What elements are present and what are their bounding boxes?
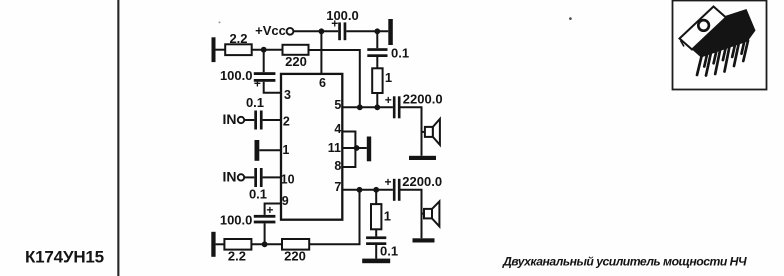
resistor 2.2 (top) bbox=[225, 31, 252, 55]
package pins bbox=[697, 38, 748, 75]
capacitor 2200.0 top bbox=[385, 92, 443, 119]
svg-text:3: 3 bbox=[284, 88, 291, 102]
wire junction down to 0.1 bbox=[376, 31, 378, 48]
capacitor 0.1 input bottom bbox=[249, 168, 267, 201]
svg-text:IN: IN bbox=[223, 111, 237, 127]
junction pins 4-11-8 bbox=[354, 145, 360, 151]
svg-text:100.0: 100.0 bbox=[220, 68, 253, 83]
wire 0.1 to resistor 1 bbox=[376, 57, 378, 68]
wire ground to pin 1 bbox=[259, 149, 281, 151]
package tab hole bbox=[698, 20, 709, 31]
svg-text:Двухканальный усилитель мощнос: Двухканальный усилитель мощности НЧ bbox=[502, 255, 747, 269]
svg-text:+: + bbox=[254, 77, 261, 91]
wire IN to cap bbox=[244, 176, 254, 178]
scan speck bbox=[569, 17, 572, 20]
wire cap to ground bbox=[346, 30, 388, 32]
svg-text:9: 9 bbox=[282, 194, 289, 208]
junction feedback/pin5 bbox=[357, 104, 363, 110]
resistor 220 (top) bbox=[283, 45, 309, 69]
wire pin 8 bracket bbox=[342, 148, 355, 167]
svg-text:11: 11 bbox=[328, 141, 341, 155]
wire resistor to 0.1 bottom bbox=[375, 229, 377, 236]
wire cap to speaker top bbox=[401, 107, 422, 156]
junction Vcc/pin6 bbox=[319, 28, 325, 34]
svg-text:7: 7 bbox=[334, 180, 341, 194]
wire Vcc rail bbox=[293, 30, 338, 32]
ground below 0.1 bottom bbox=[362, 259, 390, 264]
speaker bottom bbox=[422, 201, 440, 226]
svg-text:6: 6 bbox=[319, 76, 326, 90]
wire IN to cap bbox=[244, 119, 254, 121]
wire pin 5 bbox=[342, 106, 393, 108]
wire pin 7 bbox=[342, 189, 393, 191]
node A junction dot bbox=[261, 47, 267, 53]
junction R1b/pin7 bbox=[373, 187, 379, 193]
svg-text:2.2: 2.2 bbox=[229, 31, 247, 46]
resistor 1 (top) bbox=[372, 68, 392, 93]
svg-text:0.1: 0.1 bbox=[391, 46, 409, 61]
ground GND-B1 (bottom left) bbox=[211, 232, 215, 257]
capacitor 100.0 top (node A to pin 3) bbox=[220, 50, 275, 91]
wire cap to pin 3 bbox=[264, 82, 281, 93]
svg-text:100.0: 100.0 bbox=[220, 213, 253, 228]
wire cap to node B bbox=[264, 223, 266, 244]
op-amp IC K174UN15 box bbox=[281, 74, 343, 220]
svg-text:4: 4 bbox=[334, 122, 341, 136]
wire cap to speaker bottom bbox=[401, 190, 422, 239]
junction rail/0.1 bbox=[374, 28, 380, 34]
svg-text:0.1: 0.1 bbox=[380, 243, 398, 258]
wire R2.2 to node B to R220 bottom bbox=[251, 243, 282, 245]
wire resistor to pin5 node bbox=[376, 93, 378, 107]
svg-text:1: 1 bbox=[385, 70, 392, 85]
ground GND top right bbox=[388, 19, 393, 45]
svg-text:2.2: 2.2 bbox=[228, 248, 246, 263]
capacitor 0.1 input top bbox=[246, 95, 264, 130]
svg-text:8: 8 bbox=[334, 159, 341, 173]
wire feedback bottom: pin7 to 220 bottom bbox=[309, 190, 359, 245]
package body bbox=[692, 9, 756, 58]
wire cap to pin 10 bbox=[263, 176, 281, 178]
ground GND pins 4-11-8 bbox=[367, 137, 371, 162]
svg-text:+: + bbox=[385, 93, 392, 107]
wire cap to pin 2 bbox=[263, 119, 281, 121]
wire pin 4 bracket bbox=[342, 132, 355, 149]
ground GND-A1 (top left) bbox=[212, 37, 216, 62]
svg-text:1: 1 bbox=[282, 143, 289, 157]
svg-text:+: + bbox=[266, 203, 273, 217]
svg-text:100.0: 100.0 bbox=[326, 8, 359, 23]
svg-text:10: 10 bbox=[281, 172, 295, 186]
svg-text:2200.0: 2200.0 bbox=[403, 92, 443, 107]
svg-text:IN: IN bbox=[223, 169, 237, 185]
svg-text:+: + bbox=[384, 175, 391, 189]
terminal +Vcc bbox=[255, 23, 293, 38]
junction feedback/pin7 bbox=[357, 187, 363, 193]
wire pin7 node to resistor 1 bottom bbox=[375, 190, 377, 204]
terminal IN bottom bbox=[223, 169, 245, 185]
resistor 1 (bottom) bbox=[371, 204, 391, 229]
terminal IN top bbox=[223, 111, 245, 127]
ground below speaker bottom bbox=[413, 238, 435, 242]
svg-text:0.1: 0.1 bbox=[249, 186, 267, 201]
svg-text:2: 2 bbox=[283, 115, 290, 129]
wire 0.1 to ground bottom bbox=[375, 245, 377, 259]
junction R1/pin5 bbox=[374, 104, 380, 110]
resistor 220 (bottom) bbox=[282, 239, 309, 263]
capacitor 2200.0 bottom bbox=[384, 174, 442, 201]
svg-text:2200.0: 2200.0 bbox=[402, 174, 442, 189]
wire ground to R 2.2 bottom bbox=[216, 243, 225, 245]
svg-text:5: 5 bbox=[334, 98, 341, 112]
capacitor 0.1 rail bottom bbox=[366, 236, 398, 258]
svg-text:+Vcc: +Vcc bbox=[255, 23, 286, 38]
capacitor 100.0 bottom (pin 9) bbox=[220, 203, 276, 227]
svg-text:220: 220 bbox=[284, 248, 306, 263]
resistor 2.2 (bottom) bbox=[224, 239, 251, 263]
package tab bbox=[680, 7, 727, 50]
svg-text:0.1: 0.1 bbox=[246, 95, 264, 110]
svg-text:1: 1 bbox=[384, 209, 391, 224]
capacitor 100.0 Vcc bbox=[326, 8, 359, 40]
wire ground to R 2.2 top bbox=[216, 49, 226, 51]
ground at pin 1 bbox=[255, 140, 260, 161]
svg-text:К174УН15: К174УН15 bbox=[25, 248, 104, 267]
wire pin 11 to ground bbox=[342, 147, 367, 149]
wire pin 6 vertical bbox=[320, 31, 322, 74]
wire feedback top: 220 to pin5 node bbox=[309, 50, 360, 107]
node B junction dot bbox=[262, 241, 268, 247]
capacitor 0.1 rail top bbox=[367, 46, 409, 61]
wire pin 9 to cap bbox=[265, 204, 281, 215]
package drawing frame bbox=[673, 1, 767, 90]
page divider rule bbox=[117, 0, 119, 276]
ground below speaker top bbox=[409, 156, 436, 160]
speaker top bbox=[422, 119, 440, 145]
svg-text:220: 220 bbox=[285, 54, 307, 69]
wire R2.2 to node A to R220 bbox=[252, 49, 283, 51]
